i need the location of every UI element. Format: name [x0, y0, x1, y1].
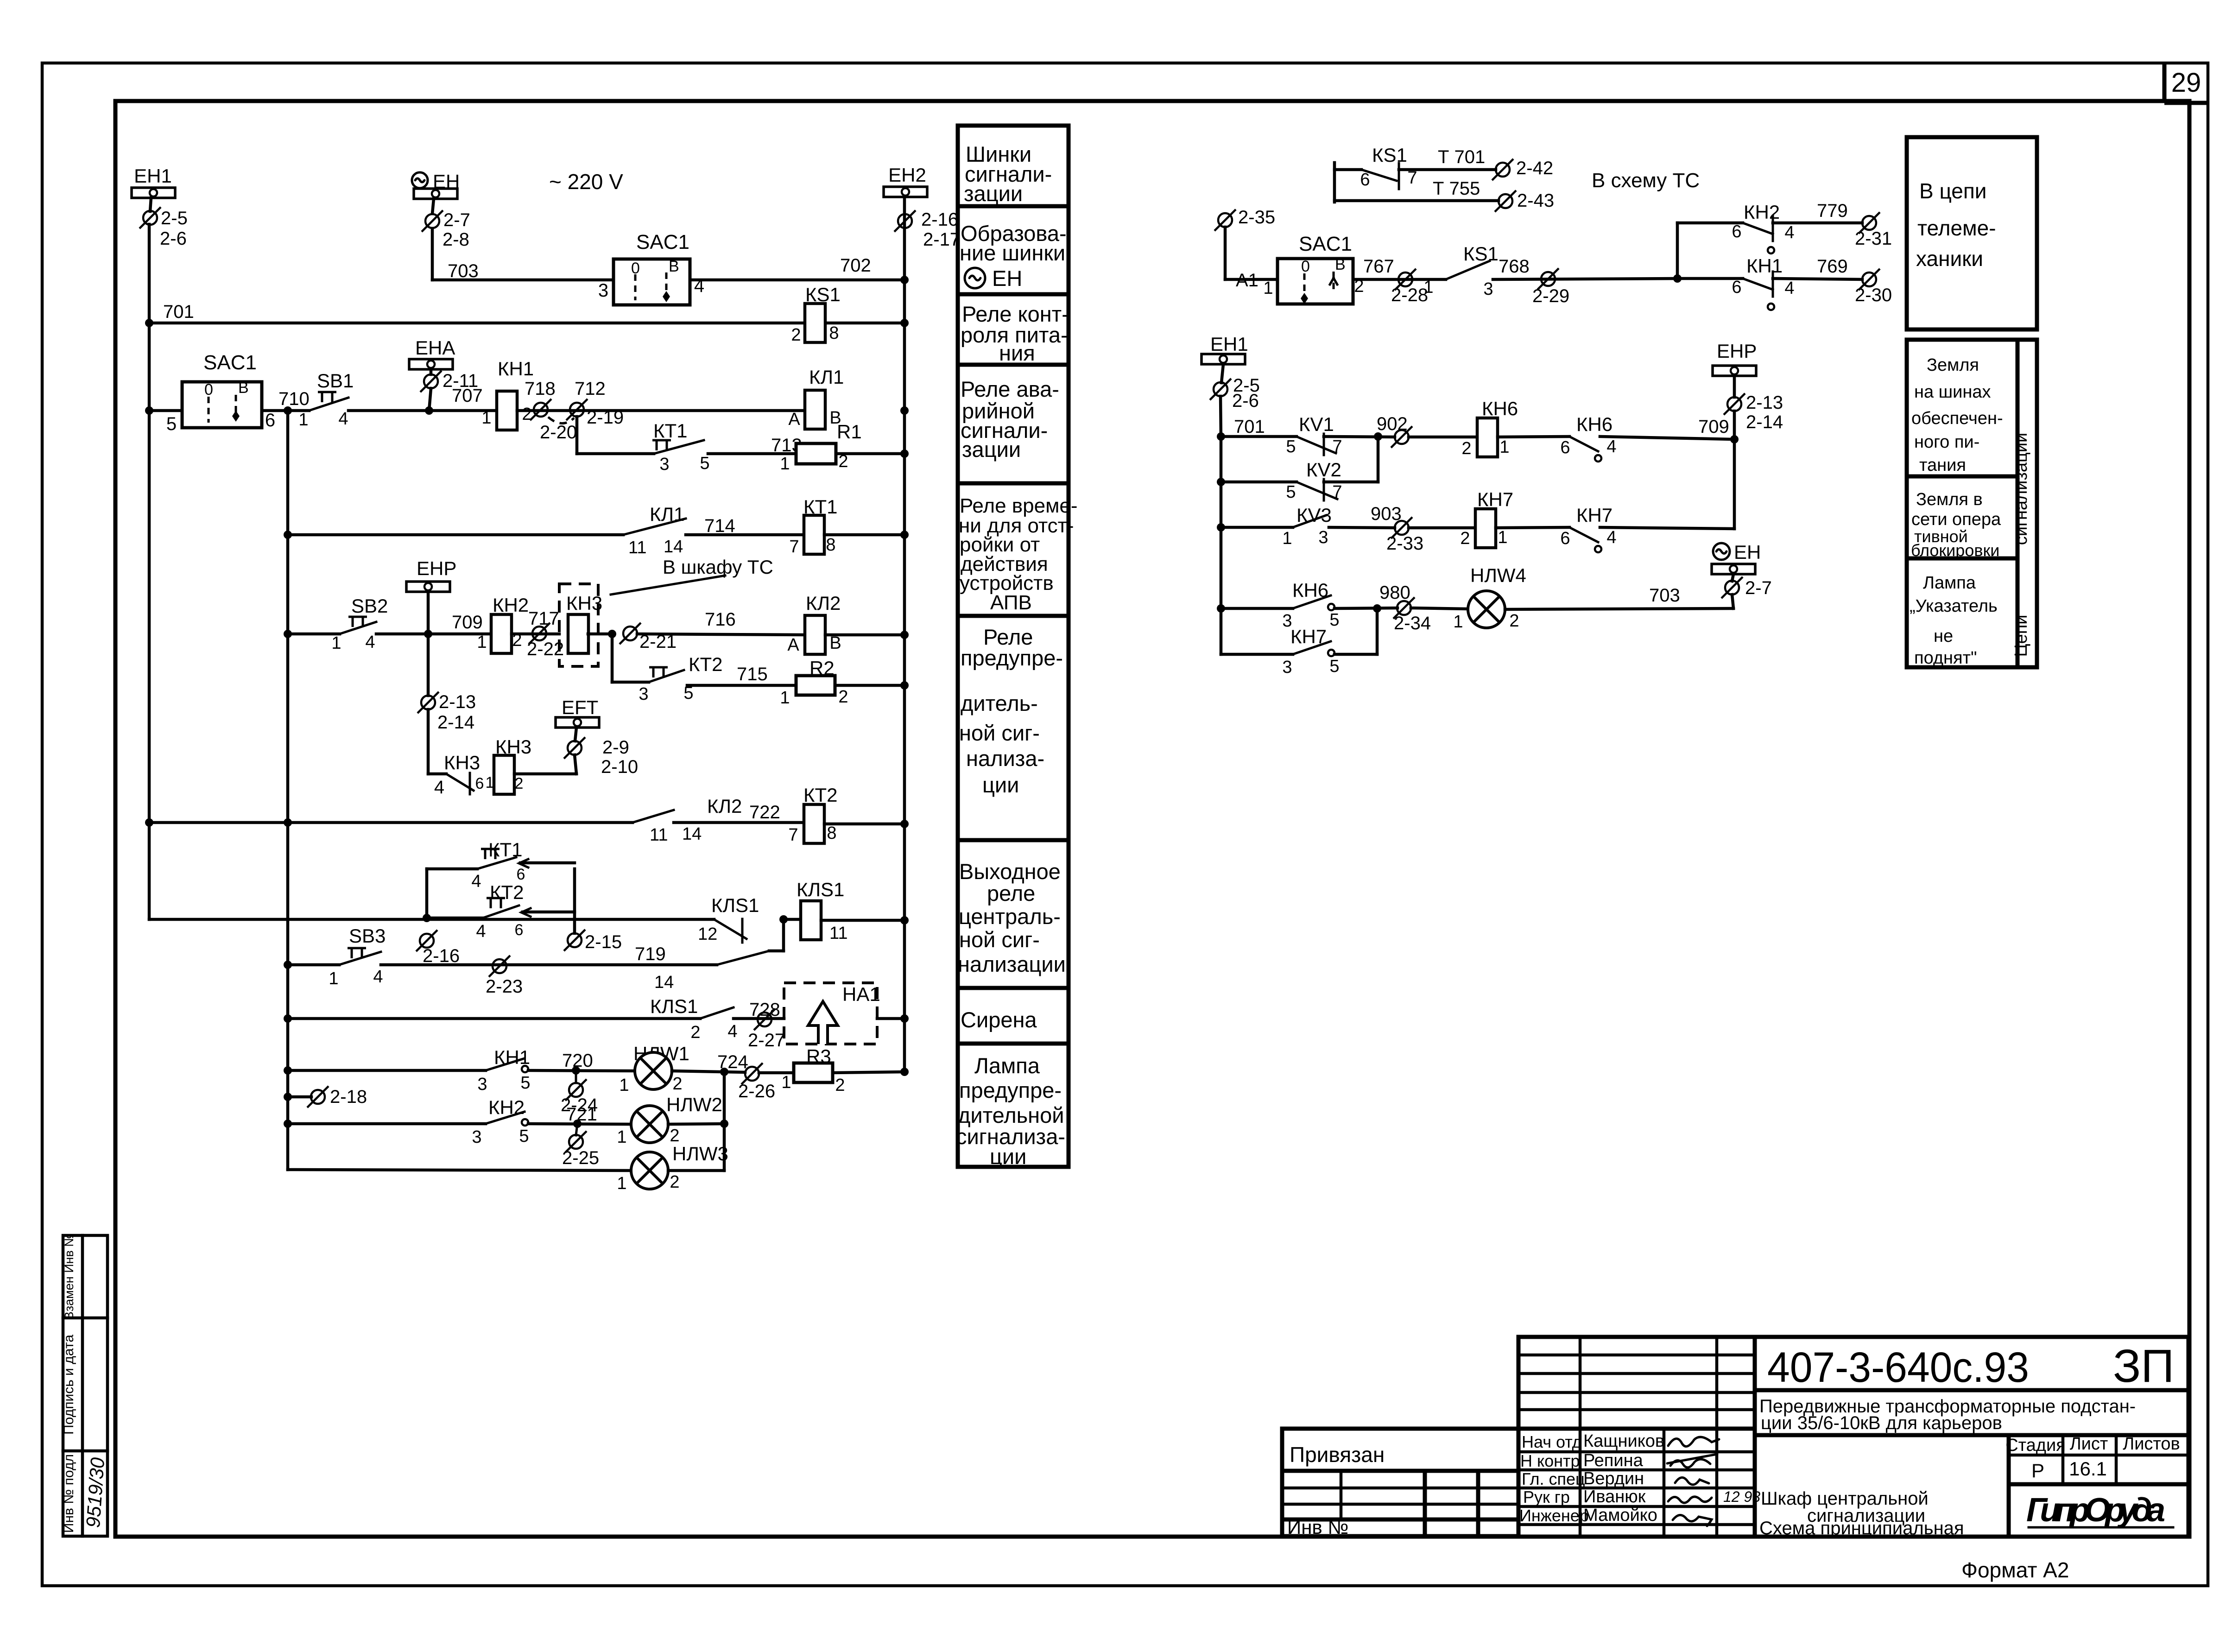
svg-text:КЛS1: КЛS1 — [650, 995, 698, 1017]
terminal 2-35 — [1214, 207, 1275, 279]
busbar EHP right — [1713, 340, 1757, 397]
svg-text:КЛ2: КЛ2 — [707, 795, 742, 817]
svg-text:2: 2 — [838, 687, 848, 707]
dashed jumper 2-20 — [540, 417, 577, 443]
svg-text:11: 11 — [829, 924, 847, 943]
svg-text:2-23: 2-23 — [486, 976, 523, 997]
relay coil KH7 — [1460, 488, 1569, 548]
svg-text:Формат А2: Формат А2 — [1961, 1558, 2069, 1582]
terminal 2-11 — [420, 371, 478, 411]
svg-text:2: 2 — [791, 325, 801, 345]
timer contact KT1 hold — [427, 839, 575, 891]
svg-text:728: 728 — [749, 1000, 780, 1020]
box zemlya — [1907, 340, 2037, 668]
svg-text:724: 724 — [717, 1052, 748, 1072]
branch up to KH2 contact — [1676, 223, 1679, 278]
svg-text:ние шинки: ние шинки — [960, 241, 1065, 265]
svg-text:зации: зации — [964, 181, 1023, 206]
contact KLS1 2-4 — [650, 995, 738, 1042]
svg-text:КН2: КН2 — [1744, 201, 1780, 223]
rung KT1 713 R1 — [577, 452, 654, 456]
svg-text:718: 718 — [525, 379, 556, 399]
svg-text:SB2: SB2 — [351, 595, 388, 617]
svg-text:ханики: ханики — [1916, 247, 1983, 271]
svg-text:Стадия: Стадия — [2005, 1436, 2066, 1455]
svg-text:Цепи: Цепи — [2011, 614, 2031, 657]
rung KLS1 coil — [149, 918, 714, 921]
wire with terminals 718 712 — [517, 409, 804, 412]
svg-text:720: 720 — [562, 1051, 593, 1071]
svg-text:709: 709 — [1698, 417, 1729, 437]
svg-text:предупре-: предупре- — [959, 1078, 1062, 1102]
signatures — [1667, 1437, 1719, 1526]
svg-text:В: В — [829, 633, 841, 653]
svg-text:703: 703 — [448, 261, 479, 281]
svg-text:2-6: 2-6 — [1232, 391, 1259, 411]
svg-text:5: 5 — [519, 1127, 529, 1146]
svg-text:5: 5 — [1329, 657, 1339, 676]
pushbutton SB3 — [329, 925, 386, 988]
svg-text:ния: ния — [999, 341, 1035, 365]
svg-text:3: 3 — [1318, 528, 1328, 547]
svg-text:2-13: 2-13 — [439, 692, 476, 712]
busbar EFT — [556, 696, 599, 741]
svg-text:6: 6 — [475, 775, 484, 792]
svg-text:КТ2: КТ2 — [490, 881, 524, 903]
wire to EHA node — [348, 409, 496, 412]
svg-text:8: 8 — [826, 535, 835, 555]
left rail 1 — [148, 224, 151, 919]
svg-text:2-30: 2-30 — [1855, 285, 1892, 305]
svg-text:ЕН2: ЕН2 — [888, 164, 926, 186]
svg-text:29: 29 — [2171, 68, 2201, 98]
svg-text:717: 717 — [528, 608, 559, 629]
contact KH7 — [1560, 504, 1734, 552]
wire EH down — [432, 199, 434, 214]
busbar EH2 — [884, 164, 927, 197]
svg-text:0: 0 — [204, 381, 213, 399]
relay coil KL2 — [787, 592, 909, 655]
giproruda logo — [2026, 1492, 2173, 1529]
svg-text:SB1: SB1 — [317, 370, 354, 392]
svg-text:2: 2 — [672, 1074, 682, 1094]
svg-text:2-7: 2-7 — [1745, 578, 1772, 598]
svg-text:2-43: 2-43 — [1517, 190, 1554, 211]
svg-text:ЕНР: ЕНР — [1717, 340, 1757, 362]
svg-text:КЛS1: КЛS1 — [797, 879, 844, 900]
svg-text:Выходное: Выходное — [959, 859, 1061, 884]
svg-text:3: 3 — [1282, 658, 1292, 677]
svg-text:сигнализации: сигнализации — [2011, 433, 2031, 545]
branch to KT2 rung — [611, 634, 614, 682]
svg-text:6: 6 — [515, 921, 524, 939]
svg-text:НЛW4: НЛW4 — [1470, 564, 1526, 586]
svg-text:14: 14 — [664, 537, 683, 557]
svg-text:407-3-640с.93: 407-3-640с.93 — [1767, 1344, 2029, 1391]
svg-text:КН6: КН6 — [1576, 413, 1613, 435]
contact KH1 769 — [1677, 255, 1892, 310]
contact KLS1 14 — [654, 919, 784, 992]
svg-text:поднят": поднят" — [1914, 648, 1977, 668]
svg-text:КН1: КН1 — [498, 358, 534, 380]
svg-text:1: 1 — [1453, 612, 1463, 632]
svg-text:ЗП: ЗП — [2113, 1340, 2174, 1392]
document number — [1755, 1388, 2188, 1392]
svg-text:ции 35/6-10кВ для карьеров: ции 35/6-10кВ для карьеров — [1761, 1413, 2002, 1433]
power source EH right — [1713, 541, 1761, 563]
svg-text:КS1: КS1 — [1372, 144, 1407, 166]
middle description column — [956, 126, 1077, 1169]
svg-text:4: 4 — [1784, 278, 1794, 298]
svg-text:ции: ции — [990, 1144, 1026, 1169]
svg-text:12 93: 12 93 — [1723, 1488, 1760, 1505]
svg-text:2: 2 — [1461, 439, 1471, 458]
svg-text:Сирена: Сирена — [961, 1007, 1037, 1032]
svg-text:4: 4 — [1606, 437, 1616, 456]
wire T755 — [1334, 178, 1554, 212]
svg-text:КЛ1: КЛ1 — [650, 503, 684, 525]
svg-text:Взамен Инв №: Взамен Инв № — [62, 1234, 76, 1320]
output relay coil KLS1 — [797, 879, 909, 943]
svg-text:SAC1: SAC1 — [636, 231, 689, 253]
terminal 2-21 — [620, 623, 677, 652]
terminal 2-13 2-14 — [417, 692, 476, 733]
svg-text:769: 769 — [1817, 256, 1848, 277]
terminal 2-16 2-17 — [894, 209, 960, 250]
svg-text:Т 755: Т 755 — [1433, 178, 1480, 199]
rung SB3 719 — [288, 963, 339, 967]
svg-text:КН3: КН3 — [444, 752, 480, 773]
svg-text:Инженер: Инженер — [1519, 1506, 1589, 1525]
svg-text:779: 779 — [1817, 201, 1848, 221]
svg-text:7: 7 — [1332, 437, 1342, 456]
svg-text:1: 1 — [481, 408, 491, 428]
timer coil KT1 — [789, 496, 909, 557]
svg-text:2-25: 2-25 — [562, 1148, 599, 1168]
rung KV1 902 KH6 — [1217, 413, 1477, 456]
svg-text:1: 1 — [1499, 437, 1509, 457]
svg-text:ЕFТ: ЕFТ — [562, 696, 598, 718]
svg-text:КН2: КН2 — [488, 1096, 525, 1118]
svg-text:Схема принципиальная: Схема принципиальная — [1759, 1518, 1964, 1538]
svg-text:не: не — [1934, 627, 1953, 646]
svg-text:4: 4 — [338, 409, 348, 429]
pushbutton SB1 — [298, 370, 354, 430]
svg-text:В: В — [238, 379, 249, 397]
svg-text:980: 980 — [1379, 582, 1410, 603]
svg-text:721: 721 — [566, 1104, 597, 1125]
svg-text:2: 2 — [1509, 611, 1519, 631]
branch KT1 KT2 self-hold — [425, 869, 429, 918]
svg-text:Инв № подл: Инв № подл — [61, 1454, 76, 1533]
svg-text:6: 6 — [517, 866, 525, 883]
wire 702 — [690, 255, 909, 284]
stadiya list listov — [2007, 1435, 2011, 1537]
resistor R2 — [780, 657, 909, 708]
svg-text:5: 5 — [700, 454, 709, 473]
svg-text:сети опера: сети опера — [1911, 510, 2001, 529]
svg-text:11: 11 — [628, 538, 646, 557]
terminal 2-7 2-8 — [422, 210, 470, 250]
svg-text:SAC1: SAC1 — [203, 351, 257, 374]
terminal 717 — [512, 608, 564, 659]
node 710 — [262, 389, 310, 415]
svg-text:Земля в: Земля в — [1916, 490, 1983, 509]
svg-text:нализации: нализации — [958, 952, 1066, 976]
svg-text:КV2: КV2 — [1306, 459, 1341, 481]
relay coil KH1 — [481, 358, 534, 430]
svg-text:0: 0 — [1301, 258, 1310, 275]
relay coil KH2 — [477, 594, 529, 653]
lamp HLW1 — [619, 1043, 689, 1095]
svg-text:ЕНА: ЕНА — [415, 337, 455, 359]
svg-text:2: 2 — [515, 775, 524, 792]
svg-text:Реле време-: Реле време- — [960, 494, 1077, 517]
dashed box KH3 — [559, 584, 598, 666]
svg-text:1: 1 — [329, 969, 338, 988]
svg-text:2-18: 2-18 — [330, 1087, 367, 1107]
svg-text:предупре-: предупре- — [961, 646, 1063, 670]
svg-text:2-31: 2-31 — [1855, 228, 1892, 249]
svg-text:КН1: КН1 — [1746, 255, 1783, 277]
svg-text:2-17: 2-17 — [923, 229, 960, 250]
terminal 2-18 stub — [284, 1086, 367, 1108]
pushbutton SB2 — [331, 595, 388, 653]
wire 703 right — [1505, 585, 1733, 609]
svg-text:КЛS1: КЛS1 — [711, 894, 759, 916]
contact KLS1 12 — [698, 894, 802, 944]
svg-text:2-34: 2-34 — [1394, 613, 1431, 633]
relay coil KS1 — [791, 284, 840, 345]
svg-text:2-15: 2-15 — [585, 932, 622, 952]
svg-text:Н контр: Н контр — [1520, 1451, 1580, 1470]
rung SB2 709 716 — [288, 633, 340, 636]
svg-text:КV1: КV1 — [1299, 413, 1334, 435]
svg-text:В: В — [669, 258, 679, 275]
terminal 2-5 2-6 right — [1210, 375, 1260, 439]
svg-text:4: 4 — [1606, 528, 1616, 547]
svg-text:3: 3 — [639, 684, 648, 704]
svg-text:2-14: 2-14 — [437, 712, 474, 733]
svg-text:2-10: 2-10 — [601, 757, 638, 777]
svg-text:2-9: 2-9 — [602, 737, 629, 758]
relay coil KH3 second — [494, 736, 576, 794]
node 724 terminal 2-26 — [672, 1052, 775, 1101]
svg-text:ЕН1: ЕН1 — [134, 165, 172, 187]
svg-text:Реле ава-: Реле ава- — [961, 377, 1059, 401]
svg-text:2-13: 2-13 — [1746, 392, 1783, 413]
rung KV3 903 KH7 — [1217, 504, 1475, 554]
svg-text:2-14: 2-14 — [1746, 412, 1783, 432]
relay coil KL1 — [788, 366, 909, 429]
svg-text:А1: А1 — [1236, 270, 1258, 291]
contact KS1 right — [1423, 243, 1498, 299]
svg-text:4: 4 — [365, 633, 375, 652]
svg-text:2-35: 2-35 — [1238, 207, 1275, 228]
svg-text:707: 707 — [452, 386, 483, 406]
wire 767 terminal 2-28 — [1353, 256, 1446, 305]
busbar EH right — [1712, 564, 1755, 581]
svg-text:8: 8 — [827, 823, 836, 843]
timer contact KT2 — [639, 653, 722, 704]
svg-text:R1: R1 — [837, 421, 862, 443]
svg-text:701: 701 — [163, 302, 194, 322]
svg-text:2-7: 2-7 — [443, 210, 470, 230]
svg-text:SAC1: SAC1 — [1299, 233, 1352, 255]
svg-text:1: 1 — [298, 410, 308, 430]
svg-text:обеспечен-: обеспечен- — [1911, 409, 2003, 428]
svg-text:тания: тания — [1919, 456, 1966, 475]
svg-text:722: 722 — [749, 802, 780, 823]
lamp HLW2 — [617, 1094, 728, 1147]
wire 715 — [687, 664, 796, 685]
svg-text:7: 7 — [788, 825, 798, 845]
terminal 2-15 — [564, 930, 622, 952]
switch SAC1 top — [598, 231, 704, 305]
svg-text:703: 703 — [1649, 585, 1680, 606]
svg-text:зации: зации — [962, 437, 1021, 462]
svg-text:ции: ции — [982, 772, 1019, 797]
svg-text:1: 1 — [780, 688, 790, 708]
svg-text:2: 2 — [1460, 529, 1470, 548]
svg-text:КН6: КН6 — [1482, 398, 1518, 419]
svg-text:6: 6 — [1560, 438, 1570, 457]
svg-text:702: 702 — [840, 255, 871, 276]
svg-text:4: 4 — [727, 1022, 737, 1041]
svg-text:4: 4 — [471, 872, 481, 891]
right ladder rail — [1220, 437, 1223, 654]
EN symbol in middle column — [965, 268, 985, 288]
wire 713 — [708, 435, 802, 456]
svg-text:Подпись и дата: Подпись и дата — [61, 1335, 76, 1435]
svg-text:1: 1 — [617, 1127, 626, 1147]
svg-text:А: А — [787, 635, 799, 655]
svg-text:Инв №: Инв № — [1287, 1516, 1348, 1538]
wire EH1 down — [150, 198, 151, 211]
svg-text:7: 7 — [1407, 168, 1417, 188]
contact KS1 telemetry — [1334, 144, 1496, 202]
svg-text:ЕН: ЕН — [992, 266, 1022, 291]
svg-text:Репина: Репина — [1583, 1451, 1644, 1470]
rung KL2 722 KT2 — [145, 795, 804, 845]
svg-text:Лист: Лист — [2070, 1434, 2108, 1454]
left rail 2 — [286, 411, 290, 1170]
svg-text:3: 3 — [477, 1075, 487, 1094]
wire 716 — [637, 609, 805, 635]
svg-text:КН2: КН2 — [493, 594, 529, 616]
svg-text:Гл. спец: Гл. спец — [1522, 1469, 1585, 1488]
node 720 terminal 2-24 — [528, 1051, 635, 1115]
svg-text:3: 3 — [472, 1127, 481, 1147]
busbar EH1 — [132, 165, 175, 198]
terminal 2-9 2-10 — [564, 737, 638, 777]
svg-text:Иванюк: Иванюк — [1583, 1487, 1646, 1506]
svg-text:нализа-: нализа- — [966, 746, 1044, 771]
svg-text:централь-: централь- — [959, 904, 1061, 929]
svg-text:1: 1 — [1263, 278, 1273, 298]
main title table — [1518, 1337, 2188, 1538]
svg-text:4: 4 — [476, 922, 486, 941]
lamp return vertical — [723, 1072, 726, 1171]
rung KV2 — [1217, 437, 1378, 502]
timer coil KT2 — [788, 784, 909, 845]
svg-text:2-27: 2-27 — [748, 1030, 785, 1051]
svg-text:1: 1 — [1498, 528, 1507, 547]
svg-text:дитель-: дитель- — [961, 691, 1038, 715]
svg-text:КЛ1: КЛ1 — [809, 366, 844, 388]
page number box 29 — [2164, 63, 2208, 103]
rung KH7 contact hold — [1221, 608, 1377, 677]
svg-text:2-29: 2-29 — [1532, 286, 1569, 306]
timer contact KT2 hold — [423, 881, 575, 941]
rung KH6 contact 980 HLW4 703 — [1217, 579, 1467, 633]
timer contact KT1 — [652, 420, 710, 474]
svg-text:5: 5 — [166, 414, 177, 434]
svg-text:1: 1 — [331, 633, 341, 653]
rung lamps HLW1 R3 — [288, 1069, 486, 1072]
contact KH2 — [472, 1096, 529, 1147]
contact KH1 — [477, 1046, 530, 1094]
svg-text:768: 768 — [1499, 256, 1530, 277]
svg-text:903: 903 — [1371, 504, 1402, 524]
svg-text:1: 1 — [781, 1073, 791, 1092]
svg-text:701: 701 — [1234, 417, 1265, 437]
relay coil KH3 — [566, 592, 616, 653]
svg-text:5: 5 — [520, 1073, 530, 1093]
terminal 2-7 right — [1721, 577, 1772, 608]
names — [1519, 1432, 1589, 1525]
svg-text:12: 12 — [698, 924, 717, 944]
svg-text:2-26: 2-26 — [738, 1081, 775, 1101]
right rail — [903, 197, 906, 1072]
svg-text:6: 6 — [1560, 529, 1570, 548]
svg-text:НЛW3: НЛW3 — [672, 1143, 728, 1165]
svg-text:В шкафу ТС: В шкафу ТС — [663, 556, 773, 578]
svg-text:Р: Р — [2031, 1460, 2044, 1481]
svg-text:ной сиг-: ной сиг- — [959, 927, 1040, 952]
branch from 712 down — [575, 417, 579, 454]
svg-text:Нач отд: Нач отд — [1522, 1432, 1582, 1451]
svg-text:Вердин: Вердин — [1583, 1469, 1644, 1488]
svg-text:2-6: 2-6 — [160, 228, 187, 249]
svg-text:1: 1 — [619, 1076, 629, 1095]
svg-text:на шинах: на шинах — [1914, 382, 1991, 402]
rung KL1 714 KT1 — [284, 503, 804, 557]
svg-text:реле: реле — [987, 881, 1035, 905]
rung lamp HLW2 — [288, 1122, 486, 1126]
svg-text:ной сиг-: ной сиг- — [959, 721, 1040, 745]
wire 703 — [432, 228, 613, 281]
busbar EH1 right — [1202, 333, 1248, 383]
svg-text:В цепи: В цепи — [1919, 179, 1986, 203]
svg-text:ного пи-: ного пи- — [1914, 432, 1979, 452]
rung KH3 contact and coil — [428, 752, 494, 798]
svg-text:Мамойко: Мамойко — [1583, 1506, 1657, 1525]
svg-text:767: 767 — [1363, 256, 1394, 277]
svg-text:2-28: 2-28 — [1391, 285, 1428, 305]
busbar EHA — [409, 337, 455, 374]
svg-text:2-16: 2-16 — [921, 209, 958, 230]
power source EH — [412, 171, 460, 192]
svg-text:В схему ТС: В схему ТС — [1592, 169, 1700, 192]
svg-text:16.1: 16.1 — [2069, 1458, 2107, 1480]
svg-text:4: 4 — [434, 777, 444, 798]
svg-text:КS1: КS1 — [1463, 243, 1499, 265]
svg-text:ГипрОруда: ГипрОруда — [2026, 1492, 2165, 1529]
svg-text:SВ3: SВ3 — [349, 925, 386, 947]
svg-text:КТ2: КТ2 — [689, 653, 722, 675]
svg-text:Рук гр: Рук гр — [1523, 1487, 1570, 1506]
